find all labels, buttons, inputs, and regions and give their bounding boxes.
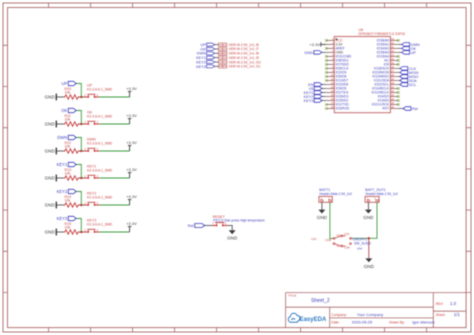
wire <box>228 226 233 231</box>
svg-text:Company:: Company: <box>331 313 347 317</box>
ground (reset) <box>227 230 238 240</box>
resistor R12 <box>64 141 80 153</box>
EasyEDA logo <box>288 313 327 323</box>
header J8 HDR-M-2.54_1x1 <box>218 52 259 56</box>
pin 23 IO15/A4 (right) <box>377 54 400 59</box>
svg-text:10k: 10k <box>65 172 71 176</box>
svg-text:GND: GND <box>363 215 374 220</box>
pin 33 IO4/DO (right) <box>378 94 400 99</box>
switch OK K2-3.6-6.1_SMD <box>84 110 113 125</box>
net flag Rst (ESP32 right) <box>398 107 418 111</box>
wire <box>99 123 129 125</box>
svg-text:GND: GND <box>45 203 56 208</box>
net flag UP <box>207 43 215 46</box>
svg-text:SCL: SCL <box>409 83 416 87</box>
svg-text:K2-3.6-6.1_SMD: K2-3.6-6.1_SMD <box>87 222 113 226</box>
svg-text:GND: GND <box>45 176 56 181</box>
svg-text:GND: GND <box>45 95 56 100</box>
svg-text:2: 2 <box>97 120 99 124</box>
pin 3 AREF (left) <box>325 46 345 51</box>
svg-text:2: 2 <box>97 228 99 232</box>
net flag KEY1 <box>57 162 77 167</box>
net flag GND (ESP32 pin 4) <box>304 50 326 55</box>
pin 8 IO6/CLK (left) <box>325 66 349 71</box>
wire <box>76 219 81 233</box>
net flag MISO (ESP32 right) <box>398 75 418 79</box>
svg-text:GND: GND <box>227 236 238 241</box>
wire <box>57 177 64 179</box>
svg-text:UP: UP <box>201 43 207 47</box>
node KEY2 junction <box>80 204 82 206</box>
svg-text:1/1: 1/1 <box>454 312 461 317</box>
wire <box>80 177 84 179</box>
wire <box>57 123 64 125</box>
wire <box>76 138 81 152</box>
pin 15 IO26/D3 (left) <box>326 94 348 99</box>
power flag +3.3V <box>126 167 137 178</box>
net flag SCL (ESP32 right) <box>398 83 416 87</box>
wire <box>80 150 84 152</box>
header J6 HDR-M-2.54_1x1 <box>218 43 259 47</box>
wire <box>57 96 64 98</box>
wire <box>215 61 219 63</box>
svg-text:RST: RST <box>382 107 389 111</box>
svg-text:Date:: Date: <box>331 320 339 324</box>
wire <box>76 165 81 179</box>
wire <box>99 177 129 179</box>
ground flag GND (KEY1 block) <box>45 175 57 182</box>
wire <box>80 231 84 233</box>
pin 26 IO18/SCK (right) <box>374 66 398 71</box>
pin 32 IO12/MCLK (right) <box>371 90 399 95</box>
ground flag GND (DWN block) <box>45 148 57 155</box>
net flag DWN (ESP32 right) <box>398 43 420 47</box>
node KEY1 junction <box>80 177 82 179</box>
svg-text:10k: 10k <box>65 91 71 95</box>
svg-text:OK: OK <box>61 108 67 113</box>
svg-text:+3.3V: +3.3V <box>126 86 137 91</box>
svg-text:Sheet_2: Sheet_2 <box>311 298 330 304</box>
wire <box>215 48 219 50</box>
wire <box>215 57 219 59</box>
wire <box>57 231 64 233</box>
pin 30 IO22/SCL (right) <box>374 82 398 87</box>
power flag +3.3V <box>126 221 137 232</box>
power flag +3.3V <box>126 113 137 124</box>
header J10 HDR-M-2.54_1x1 <box>218 60 260 64</box>
power flag +3.3V <box>126 140 137 151</box>
pin 28 IO19/MISO (right) <box>372 74 398 79</box>
svg-text:+3.3V: +3.3V <box>126 113 137 118</box>
svg-text:K2-3.6-6.1_SMD: K2-3.6-6.1_SMD <box>87 141 113 145</box>
svg-text:10k: 10k <box>65 145 71 149</box>
svg-text:+3.3V: +3.3V <box>126 167 137 172</box>
switch DWN K2-3.6-6.1_SMD <box>84 137 113 152</box>
net flag Rst (reset button) <box>188 223 212 228</box>
resistor R14 <box>64 195 80 207</box>
net flag EN (ESP32 left) <box>308 83 326 87</box>
svg-text:+3.3V: +3.3V <box>309 42 320 47</box>
pin 36 RST (right) <box>382 106 398 111</box>
wire <box>99 150 129 152</box>
wire <box>215 52 219 54</box>
svg-text:HDR-M-2.54_1x1 J9: HDR-M-2.54_1x1 J9 <box>229 56 259 60</box>
svg-text:igor silenock: igor silenock <box>412 319 434 324</box>
svg-text:2: 2 <box>97 147 99 151</box>
ground flag GND (OK block) <box>45 121 57 128</box>
switch ON/OFF1 SW_SLIDE <box>311 232 372 250</box>
pin 2 3.3V (left) <box>326 42 343 47</box>
switch UP K2-3.6-6.1_SMD <box>84 83 113 98</box>
net flag CLK (ESP32 right) <box>398 67 416 71</box>
svg-text:KEY3: KEY3 <box>196 65 206 69</box>
pin 16 IO25/D2 (left) <box>326 98 348 103</box>
power flag +3.3V (ESP32 pin 2) <box>309 42 326 47</box>
svg-text:3*6*2.5 Side press High temper: 3*6*2.5 Side press High temperature <box>213 219 265 223</box>
ground (switch output) <box>364 258 375 269</box>
svg-text:10d: 10d <box>357 246 362 250</box>
pin 12 IO10/D6 (left) <box>326 82 348 87</box>
net flag KEY2 (ESP32 left) <box>304 95 327 99</box>
power flag +3.3V <box>126 194 137 205</box>
svg-text:KEY3: KEY3 <box>304 99 314 103</box>
wire <box>80 123 84 125</box>
wire <box>352 237 369 239</box>
wire <box>369 202 377 238</box>
net flag DWN <box>57 135 76 140</box>
svg-text:KEY1: KEY1 <box>196 56 206 60</box>
pin 13 IO9/D5 (left) <box>326 86 346 91</box>
svg-text:DFROBOT FIREBEETLE ESP32: DFROBOT FIREBEETLE ESP32 <box>359 32 406 36</box>
wire <box>80 204 84 206</box>
svg-text:KEY3: KEY3 <box>57 216 68 221</box>
net flag KEY1 <box>207 56 215 59</box>
svg-text:UP: UP <box>61 81 67 86</box>
wire <box>367 202 369 209</box>
header BATT_OUT1 Header-Male-2.54_1x2 <box>365 188 398 202</box>
net flag UP <box>61 81 76 86</box>
node junction (switch output) <box>368 237 370 239</box>
svg-text:1: 1 <box>84 201 86 205</box>
pin 31 IO14/BCLK (right) <box>372 86 400 91</box>
pin 29 IO21/SDA (right) <box>374 78 398 83</box>
net flag MOSI (ESP32 right) <box>398 71 418 75</box>
net flag KEY1 (ESP32 left) <box>304 91 327 95</box>
pin 5 IO11/CMD (left) <box>325 54 352 59</box>
svg-text:K2-3.6-6.1_SMD: K2-3.6-6.1_SMD <box>87 168 113 172</box>
pin 14 IO27/D4 (left) <box>326 90 348 95</box>
wire <box>80 96 84 98</box>
pin 20 IO39/A1 (right) <box>377 42 399 47</box>
net flag KEY3 (ESP32 left) <box>304 99 327 103</box>
power flag +3.3V <box>126 86 137 97</box>
net flag OK <box>207 48 215 51</box>
svg-text:NC: NC <box>337 244 341 248</box>
ground flag GND (KEY3 block) <box>45 229 57 236</box>
wire <box>215 44 219 46</box>
pin 17 IO1/TXD (left) <box>325 102 349 107</box>
header J11 HDR-M-2.54_1x1 <box>218 65 260 69</box>
svg-text:Sheet:: Sheet: <box>436 313 446 317</box>
wire <box>330 202 333 238</box>
svg-text:K2-3.6-6.1_SMD: K2-3.6-6.1_SMD <box>87 114 113 118</box>
pin 22 IO35/A3 (right) <box>377 50 399 55</box>
wire <box>76 84 81 98</box>
wire <box>368 238 370 258</box>
net flag OK (ESP32 right) <box>398 47 416 51</box>
header BATT1 Header-Male-2.54_1x2 <box>319 188 352 202</box>
svg-text:1: 1 <box>84 147 86 151</box>
svg-text:2020-05-25: 2020-05-25 <box>352 319 373 324</box>
header J7 HDR-M-2.54_1x1 <box>218 47 259 51</box>
pin 19 IO36/A0 (right) <box>377 38 400 43</box>
svg-text:K2-3.6-6.1_SMD: K2-3.6-6.1_SMD <box>87 87 113 91</box>
pin 11 IO13/D7 (left) <box>325 78 348 83</box>
svg-text:KEY2: KEY2 <box>196 60 206 64</box>
svg-text:GND: GND <box>45 122 56 127</box>
wire <box>76 111 81 125</box>
pin 10 IO5/D8 (left) <box>325 74 346 79</box>
node OK junction <box>80 123 82 125</box>
svg-text:1: 1 <box>84 174 86 178</box>
svg-text:1: 1 <box>84 93 86 97</box>
svg-text:GND: GND <box>304 50 313 55</box>
ground flag GND (KEY2 block) <box>45 202 57 209</box>
pin 27 IO23/MOSI (right) <box>372 70 398 75</box>
ground (BATT_OUT1) <box>363 210 374 220</box>
svg-text:2: 2 <box>97 201 99 205</box>
svg-text:GND: GND <box>45 149 56 154</box>
svg-text:10k: 10k <box>65 226 71 230</box>
pin 21 IO34/A2 (right) <box>377 46 399 51</box>
pin 35 IO21/LRCK (right) <box>372 102 400 107</box>
svg-text:Drawn By:: Drawn By: <box>389 320 405 324</box>
pin 6 IO8/SD1 (left) <box>325 58 349 63</box>
resistor R11 <box>64 114 80 126</box>
svg-text:COM: COM <box>325 238 331 242</box>
switch KEY1 K2-3.6-6.1_SMD <box>84 164 113 179</box>
net flag SDA (ESP32 right) <box>398 79 417 83</box>
wire <box>76 192 81 206</box>
svg-text:1.0: 1.0 <box>450 301 457 306</box>
header J9 HDR-M-2.54_1x1 <box>218 56 259 60</box>
pin 18 IO3/RXD (left) <box>325 106 350 111</box>
pin 1 VCC (left) <box>325 38 343 43</box>
IC U6 DFROBOT FIREBEETLE ESP32 <box>334 28 405 113</box>
svg-text:C1N: C1N <box>311 237 316 241</box>
pin 25 IO0 (right) <box>384 62 400 67</box>
svg-text:+3.3V: +3.3V <box>126 194 137 199</box>
resistor R10 <box>64 87 80 99</box>
pin 4 GND (left) <box>326 50 343 55</box>
wire <box>57 204 64 206</box>
svg-text:10k: 10k <box>65 199 71 203</box>
pin 24 NC (right) <box>384 58 399 63</box>
svg-text:Rst: Rst <box>188 223 195 228</box>
pin 7 IO7/SD0 (left) <box>325 62 349 67</box>
switch KEY2 K2-3.6-6.1_SMD <box>84 191 113 206</box>
net flag OK <box>61 108 76 113</box>
svg-text:C2O: C2O <box>344 232 349 236</box>
svg-text:Header-Male-2.54_1x2: Header-Male-2.54_1x2 <box>319 192 352 196</box>
svg-text:HDR-M-2.54_1x1 J11: HDR-M-2.54_1x1 J11 <box>229 65 261 69</box>
svg-text:1: 1 <box>84 228 86 232</box>
svg-text:REV:: REV: <box>436 302 444 306</box>
ground flag GND (UP block) <box>45 94 57 101</box>
net flag V5 (ESP32 left) <box>309 87 327 91</box>
node UP junction <box>80 96 82 98</box>
svg-text:NO: NO <box>337 234 341 238</box>
resistor R15 <box>64 222 80 234</box>
wire <box>99 231 129 233</box>
svg-text:GND: GND <box>317 215 328 220</box>
title block lines <box>286 293 467 328</box>
svg-text:DWN: DWN <box>57 135 67 140</box>
net flag KEY2 <box>57 189 77 194</box>
svg-text:EasyEDA: EasyEDA <box>300 317 327 323</box>
pin 9 IO2/D9 (left) <box>325 70 346 75</box>
net flag KEY2 <box>207 61 215 64</box>
pin 34 IO16/DI (right) <box>378 98 400 103</box>
svg-text:IO3/RXD: IO3/RXD <box>336 107 350 111</box>
svg-text:TITLE:: TITLE: <box>288 293 297 297</box>
svg-text:+3.3V: +3.3V <box>126 140 137 145</box>
net flag DWN <box>207 52 215 55</box>
net flag KEY3 <box>57 216 77 221</box>
svg-text:1: 1 <box>84 120 86 124</box>
svg-text:2: 2 <box>97 93 99 97</box>
net flag UP (ESP32 right) <box>398 51 416 55</box>
node KEY3 junction <box>80 231 82 233</box>
net flag KEY3 <box>207 65 215 68</box>
wire <box>321 202 323 209</box>
svg-text:Header-Male-2.54_1x2: Header-Male-2.54_1x2 <box>365 192 398 196</box>
svg-text:2: 2 <box>97 174 99 178</box>
svg-text:Your Company: Your Company <box>357 312 383 317</box>
wire <box>99 96 129 98</box>
svg-text:10k: 10k <box>65 118 71 122</box>
svg-text:KEY2: KEY2 <box>57 189 68 194</box>
svg-text:Rst: Rst <box>412 107 419 111</box>
switch KEY3 K2-3.6-6.1_SMD <box>84 218 113 233</box>
svg-text:K2-3.6-6.1_SMD: K2-3.6-6.1_SMD <box>87 195 113 199</box>
resistor R13 <box>64 168 80 180</box>
node DWN junction <box>80 150 82 152</box>
wire <box>57 150 64 152</box>
svg-text:+3.3V: +3.3V <box>126 221 137 226</box>
ground (BATT1) <box>317 210 328 220</box>
wire <box>215 65 219 67</box>
svg-text:UP: UP <box>411 51 417 55</box>
svg-text:C2M: C2M <box>344 245 349 249</box>
svg-text:HDR-M-2.54_1x1 J7: HDR-M-2.54_1x1 J7 <box>229 47 259 51</box>
svg-text:GND: GND <box>364 264 375 269</box>
svg-text:GND: GND <box>45 230 56 235</box>
switch RESET 3*6*2.5 <box>212 215 265 227</box>
wire <box>99 204 129 206</box>
svg-text:KEY1: KEY1 <box>57 162 68 167</box>
